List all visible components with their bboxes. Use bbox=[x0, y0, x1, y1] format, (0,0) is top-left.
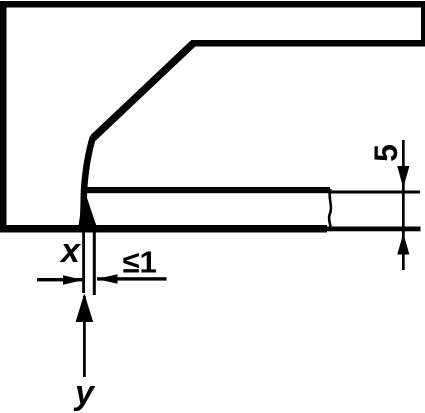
svg-text:≤1: ≤1 bbox=[123, 245, 157, 280]
upper plate left edge bbox=[0, 1, 7, 232]
root wedge bbox=[78, 189, 98, 229]
upper plate top edge bbox=[0, 1, 425, 8]
upper plate inner edge bbox=[191, 40, 425, 47]
bevel diagonal bbox=[93, 44, 193, 139]
arrowhead down (5 dimension top) bbox=[397, 166, 409, 188]
svg-text:5: 5 bbox=[368, 144, 404, 162]
backing bar break line bbox=[329, 189, 331, 229]
y view arrow line bbox=[83, 296, 86, 377]
arrowhead right (gap dimension left side) bbox=[63, 275, 84, 284]
arrowhead up (5 dimension bottom) bbox=[397, 234, 409, 255]
y arrowhead bbox=[76, 294, 94, 323]
backing bar top edge thin (beyond break) bbox=[330, 191, 420, 194]
dimension line for 5 bbox=[402, 140, 405, 270]
svg-text:y: y bbox=[73, 374, 96, 412]
upper plate right edge bbox=[421, 1, 425, 46]
gap dimension line right segment bbox=[97, 277, 167, 280]
left extension line of root gap bbox=[82, 232, 85, 293]
right extension line of root gap bbox=[93, 228, 96, 295]
backing bar bottom edge thin (beyond break) bbox=[327, 227, 421, 232]
gap dimension line left segment bbox=[37, 278, 83, 281]
root face curve bbox=[83, 137, 93, 228]
backing bar top edge (thick) bbox=[84, 187, 330, 193]
arrowhead left (gap dimension right side) bbox=[97, 274, 118, 283]
svg-text:x: x bbox=[59, 232, 82, 270]
bottom edge of plate and backing bar (thick) bbox=[0, 225, 327, 233]
